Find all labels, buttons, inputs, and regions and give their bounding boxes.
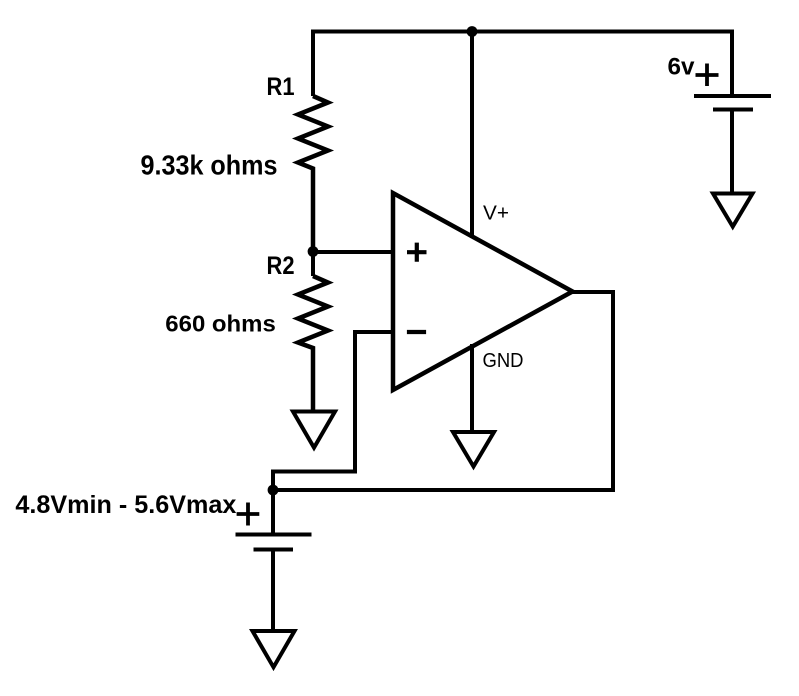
svg-text:4.8Vmin - 5.6Vmax: 4.8Vmin - 5.6Vmax — [15, 491, 236, 519]
svg-text:V+: V+ — [483, 202, 509, 225]
svg-text:9.33k ohms: 9.33k ohms — [141, 150, 278, 181]
svg-text:660 ohms: 660 ohms — [165, 311, 275, 337]
svg-text:GND: GND — [483, 349, 524, 372]
svg-text:6v: 6v — [668, 54, 695, 81]
svg-text:R1: R1 — [267, 73, 295, 101]
svg-text:R2: R2 — [267, 252, 295, 280]
